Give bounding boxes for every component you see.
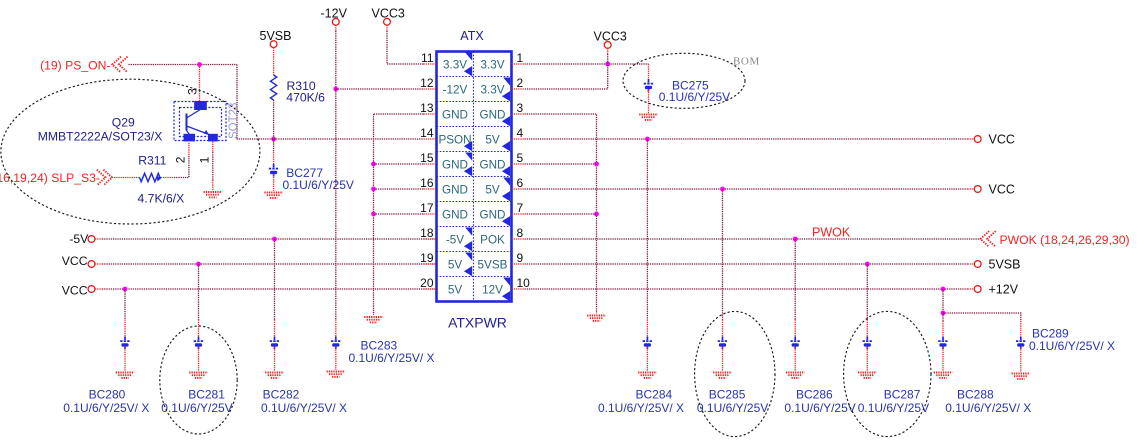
wire BC287 to ground xyxy=(866,347,868,371)
svg-text:3.3V: 3.3V xyxy=(480,83,504,96)
svg-text:1: 1 xyxy=(198,156,212,163)
pin number 15 xyxy=(420,151,434,165)
svg-text:10: 10 xyxy=(517,276,531,290)
value label BC288 xyxy=(945,401,1031,415)
pin number 17 xyxy=(420,201,434,215)
junction -12V / pin 12 xyxy=(333,87,338,92)
ground at BC284 xyxy=(638,373,657,378)
svg-text:0.1U/6/Y/25V: 0.1U/6/Y/25V xyxy=(697,401,768,415)
terminal VCC3 right xyxy=(604,42,611,49)
svg-text:19: 19 xyxy=(420,251,434,265)
svg-text:0.1U/6/Y/25V/ X: 0.1U/6/Y/25V/ X xyxy=(261,401,347,415)
terminal VCC row20 xyxy=(88,286,95,293)
svg-text:0.1U/6/Y/25V/ X: 0.1U/6/Y/25V/ X xyxy=(945,401,1031,415)
pin number 3 xyxy=(517,101,524,115)
wire pin 3 GND xyxy=(525,114,597,314)
svg-text:5VSB: 5VSB xyxy=(478,258,508,271)
ground at BC287 xyxy=(858,373,877,378)
svg-text:2: 2 xyxy=(517,76,524,90)
wire PSON to BC277 xyxy=(273,139,275,152)
svg-text:16: 16 xyxy=(420,176,434,190)
wire BC289 pin stub xyxy=(1020,321,1022,337)
pin number 1 of Q29 xyxy=(198,156,212,163)
pin label GND row 7 left xyxy=(442,208,468,221)
svg-text:1: 1 xyxy=(517,51,524,65)
connector ATXPWR body xyxy=(437,52,512,302)
pin marker R6 xyxy=(502,178,510,202)
wire -5V rail xyxy=(102,238,437,240)
ref label BC287 xyxy=(884,388,921,402)
net name PWOK on wire xyxy=(812,226,851,240)
svg-text:GND: GND xyxy=(442,108,468,121)
pin number 1 xyxy=(517,51,524,65)
pin stub left 17 xyxy=(424,213,437,215)
transistor Q29 MMBT2222A SOT23 package xyxy=(174,101,226,141)
package label SOT23 xyxy=(228,103,240,139)
wire BC282 to ground xyxy=(274,347,276,371)
net label +12V xyxy=(989,283,1019,297)
svg-text:+12V: +12V xyxy=(989,283,1019,297)
svg-text:4: 4 xyxy=(517,126,524,140)
net label 16,19,24) SLP_S3- xyxy=(0,171,100,185)
pin label 12V row 10 right xyxy=(482,283,503,296)
ground at BC286 xyxy=(786,373,805,378)
stub terminal pin 4 VCC xyxy=(968,138,975,140)
pin marker R3 xyxy=(502,116,510,126)
ground at BC283 xyxy=(327,372,346,377)
pin label -12V row 2 left xyxy=(443,83,468,96)
svg-text:VCC3: VCC3 xyxy=(594,29,627,43)
pin stub left 19 xyxy=(424,263,437,265)
svg-text:0.1U/6/Y/25V/ X: 0.1U/6/Y/25V/ X xyxy=(349,351,435,365)
svg-text:11: 11 xyxy=(421,51,434,65)
net label PWOK (18,24,26,29,30) xyxy=(1000,233,1130,247)
pin label GND row 7 right xyxy=(480,208,506,221)
pin marker R4 xyxy=(502,141,510,151)
wire Q29 collector pin 3 xyxy=(199,65,201,102)
svg-text:16,19,24) SLP_S3-: 16,19,24) SLP_S3- xyxy=(0,171,100,185)
wire pin 1 VCC3 xyxy=(525,63,649,65)
svg-text:-12V: -12V xyxy=(443,83,468,96)
pin number 10 xyxy=(517,276,531,290)
terminal 5VSB right xyxy=(974,261,981,268)
terminal VCC3 left xyxy=(384,18,391,25)
pin label 5V row 10 left xyxy=(448,283,463,296)
junction pin8 / BC286 xyxy=(793,237,798,242)
wire pin 9 5VSB xyxy=(525,263,968,265)
svg-text:20: 20 xyxy=(420,276,434,290)
svg-text:BC284: BC284 xyxy=(636,388,673,402)
junction GND left pin 15 xyxy=(371,162,376,167)
pin stub right 4 xyxy=(512,138,525,140)
pin label 3.3V row 1 right xyxy=(480,58,504,71)
ground at Q29 emitter xyxy=(204,192,223,197)
ground for pins 13 15 16 17 xyxy=(364,317,383,322)
pin stub right 7 xyxy=(512,213,525,215)
pin stub right 10 xyxy=(512,288,525,290)
stub terminal pin 6 VCC xyxy=(968,188,975,190)
net label -5V xyxy=(69,232,89,246)
svg-text:0.1U/6/Y/25V: 0.1U/6/Y/25V xyxy=(283,178,354,192)
wire BC288 to ground xyxy=(942,347,944,371)
stub terminal pin 10 +12V xyxy=(968,288,975,290)
svg-text:5V: 5V xyxy=(485,183,500,196)
capacitor BC275 xyxy=(644,79,654,92)
svg-text:5VSB: 5VSB xyxy=(989,258,1021,272)
wire +12V down to BC288 junction xyxy=(942,289,944,313)
junction GND right pin 5 xyxy=(594,162,599,167)
ground at BC282 xyxy=(265,373,284,378)
svg-text:PWOK: PWOK xyxy=(812,226,851,240)
svg-text:0.1U/6/Y/25V/ X: 0.1U/6/Y/25V/ X xyxy=(63,401,149,415)
svg-text:13: 13 xyxy=(420,101,434,115)
pin stub left 11 xyxy=(424,63,437,65)
junction -5V / BC282 xyxy=(272,237,277,242)
wire BC277 to ground xyxy=(273,175,275,191)
svg-text:GND: GND xyxy=(480,158,506,171)
svg-text:0.1U/6/Y/25V: 0.1U/6/Y/25V xyxy=(784,401,855,415)
junction PS_ON / Q29 collector xyxy=(197,62,202,67)
terminal VCC row6 xyxy=(974,186,981,193)
svg-text:0.1U/6/Y/25V/ X: 0.1U/6/Y/25V/ X xyxy=(1029,339,1115,353)
wire pin 13 GND xyxy=(374,113,424,115)
svg-text:GND: GND xyxy=(442,158,468,171)
svg-text:MMBT2222A/SOT23/X: MMBT2222A/SOT23/X xyxy=(38,129,163,143)
svg-text:ATX: ATX xyxy=(460,29,484,43)
pin marker L4 xyxy=(464,141,472,151)
svg-text:18: 18 xyxy=(420,226,434,240)
stub terminal pin 9 5VSB xyxy=(968,263,975,265)
pin label GND row 3 right xyxy=(480,108,506,121)
wire BC285 drop xyxy=(722,189,724,320)
wire R310 to PSON net xyxy=(273,100,275,139)
highlight ellipse around BC281 xyxy=(160,326,237,434)
ref label BC286 xyxy=(796,388,833,402)
pin label PSON row 4 left xyxy=(438,133,471,146)
net label VCC row6 xyxy=(989,183,1015,197)
pin marker L8 xyxy=(464,228,472,252)
pin label -5V row 8 left xyxy=(446,233,464,246)
svg-text:12: 12 xyxy=(420,76,434,90)
pin label 3.3V row 1 left xyxy=(443,58,467,71)
ref label BC275 xyxy=(672,79,709,93)
pin number 7 xyxy=(517,201,524,215)
net label 5VSB right xyxy=(989,258,1021,272)
value label 470K/6 xyxy=(286,91,325,105)
value label BC277 0.1U/6/Y/25V xyxy=(283,178,354,192)
net label (19) PS_ON- xyxy=(40,58,110,72)
value label BC275 0.1U/6/Y/25V xyxy=(659,90,730,104)
svg-text:15: 15 xyxy=(420,151,434,165)
pin marker R10 xyxy=(502,278,510,302)
svg-text:0.1U/6/Y/25V: 0.1U/6/Y/25V xyxy=(659,90,730,104)
ref label BC277 xyxy=(286,166,323,180)
svg-text:VCC: VCC xyxy=(62,284,88,298)
pin stub right 5 xyxy=(512,163,525,165)
stub VCC20 terminal xyxy=(95,288,102,290)
wire BC284 pin stub xyxy=(646,320,648,337)
ground at BC281 xyxy=(189,373,208,378)
svg-text:3.3V: 3.3V xyxy=(480,58,504,71)
capacitor BC282 xyxy=(270,337,280,350)
net label -12V xyxy=(321,7,348,21)
terminal 5VSB xyxy=(270,41,277,48)
svg-text:BC288: BC288 xyxy=(957,388,994,402)
pin stub right 8 xyxy=(512,238,525,240)
junction GND right pin 7 xyxy=(594,212,599,217)
value label BC281 xyxy=(161,401,232,415)
wire BC287 pin stub xyxy=(866,320,868,337)
capacitor BC281 xyxy=(194,337,204,350)
off-page arrow SLP_S3 xyxy=(97,170,112,186)
resistor R311 xyxy=(140,173,161,181)
svg-text:5V: 5V xyxy=(448,283,463,296)
svg-text:GND: GND xyxy=(480,108,506,121)
ground at BC289 xyxy=(1012,374,1031,379)
pin number 19 xyxy=(420,251,434,265)
wire VCC3 down xyxy=(386,31,388,64)
svg-text:(19) PS_ON-: (19) PS_ON- xyxy=(40,58,110,72)
wire BC285 pin stub xyxy=(722,320,724,337)
svg-text:6: 6 xyxy=(517,176,524,190)
pin label 5VSB row 9 right xyxy=(478,258,508,271)
svg-text:GND: GND xyxy=(442,183,468,196)
terminal +12V xyxy=(974,286,981,293)
wire BC275 to ground xyxy=(648,90,650,113)
svg-text:BC287: BC287 xyxy=(884,388,921,402)
svg-text:14: 14 xyxy=(420,126,434,140)
svg-text:3: 3 xyxy=(517,101,524,115)
net label VCC3 right xyxy=(594,29,627,43)
junction VCC19 / BC281 xyxy=(196,262,201,267)
wire pin 14 PSON xyxy=(237,138,424,140)
wire pin 15 GND xyxy=(374,163,424,165)
value label BC289 xyxy=(1029,339,1115,353)
wire -12V down to BC283 xyxy=(335,89,337,320)
wire BC289 to ground xyxy=(1020,347,1022,372)
wire BC281 pin stub xyxy=(198,320,200,337)
capacitor BC284 xyxy=(643,337,653,350)
ground at BC277 xyxy=(264,193,283,198)
pin number 2 xyxy=(517,76,524,90)
pin label GND row 5 left xyxy=(442,158,468,171)
value label BC285 xyxy=(697,401,768,415)
wire BC285 to ground xyxy=(722,347,724,371)
connector title ATX xyxy=(460,29,484,43)
pin marker L9 xyxy=(464,253,472,277)
pin label GND row 6 left xyxy=(442,183,468,196)
svg-text:-5V: -5V xyxy=(446,233,464,246)
pin marker R5 xyxy=(502,166,510,176)
svg-text:SOT23: SOT23 xyxy=(228,103,240,139)
pin label GND row 5 right xyxy=(480,158,506,171)
wire pin 17 GND xyxy=(374,213,424,215)
value label BC284 xyxy=(598,401,684,415)
svg-text:PWOK (18,24,26,29,30): PWOK (18,24,26,29,30) xyxy=(1000,233,1130,247)
resistor R310 xyxy=(271,75,277,100)
wire BC282 drop xyxy=(274,239,276,320)
pin stub left 14 xyxy=(424,138,437,140)
svg-text:GND: GND xyxy=(480,208,506,221)
pin stub right 1 xyxy=(512,63,525,65)
wire BC283 to ground xyxy=(335,347,337,370)
wire BC288 pin stub xyxy=(942,321,944,337)
ref label BC280 xyxy=(89,388,126,402)
highlight ellipse around Q29 and R311 xyxy=(1,79,260,224)
ground for pins 3 5 7 xyxy=(587,316,606,321)
wire to BC289 xyxy=(943,313,1021,321)
svg-text:17: 17 xyxy=(420,201,434,215)
wire emitter mid xyxy=(212,152,214,180)
pin number 14 xyxy=(420,126,434,140)
svg-text:-5V: -5V xyxy=(69,232,89,246)
svg-text:7: 7 xyxy=(517,201,524,215)
svg-text:POK: POK xyxy=(480,233,505,246)
value label MMBT2222A/SOT23/X xyxy=(38,129,163,143)
wire VCC3 right terminal down xyxy=(525,54,608,89)
pin stub right 9 xyxy=(512,263,525,265)
wire pin 5 GND xyxy=(525,163,597,165)
svg-text:BOM: BOM xyxy=(733,56,760,68)
pin stub right 6 xyxy=(512,188,525,190)
stub VCC3 right terminal xyxy=(607,48,609,54)
wire emitter ground stub xyxy=(212,180,214,191)
pin stub left 16 xyxy=(424,188,437,190)
pin number 8 xyxy=(517,226,524,240)
value label BC280 xyxy=(63,401,149,415)
wire pin 11 to VCC3 xyxy=(387,63,424,65)
BOM note xyxy=(733,56,760,68)
pin number 18 xyxy=(420,226,434,240)
wire pin 6 VCC xyxy=(525,188,968,190)
net label VCC3 xyxy=(372,7,405,21)
pin number 20 xyxy=(420,276,434,290)
ground at BC288 xyxy=(934,373,953,378)
wire pin 8 PWOK xyxy=(525,238,981,240)
highlight ellipse around BC275 xyxy=(623,53,745,108)
terminal -12V xyxy=(332,18,339,25)
junction pin4 / BC284 xyxy=(645,137,650,142)
ref label R310 xyxy=(287,79,316,93)
wire BC280 pin stub xyxy=(124,320,126,337)
wire Q29 emitter pin 1 xyxy=(212,142,214,153)
svg-text:5V: 5V xyxy=(485,133,500,146)
pin number 4 xyxy=(517,126,524,140)
svg-text:BC285: BC285 xyxy=(709,388,746,402)
svg-text:470K/6: 470K/6 xyxy=(286,91,325,105)
svg-text:2: 2 xyxy=(174,156,188,163)
wire base pin stub xyxy=(188,142,190,155)
ref label BC282 xyxy=(263,388,300,402)
wire pin 16 GND xyxy=(374,188,424,190)
pin number 3 of Q29 xyxy=(186,88,200,95)
ground at BC275 xyxy=(639,115,658,120)
connector name ATXPWR xyxy=(448,315,507,331)
svg-text:GND: GND xyxy=(442,208,468,221)
capacitor BC285 xyxy=(718,337,728,350)
svg-text:0.1U/6/Y/25V/ X: 0.1U/6/Y/25V/ X xyxy=(598,401,684,415)
svg-text:8: 8 xyxy=(517,226,524,240)
stub -5V terminal xyxy=(95,238,102,240)
junction GND left pin 17 xyxy=(371,212,376,217)
stub VCC3 terminal xyxy=(386,25,388,31)
stub -12V terminal xyxy=(335,25,337,31)
capacitor BC277 xyxy=(269,164,279,177)
capacitor BC283 xyxy=(331,337,341,350)
capacitor BC286 xyxy=(790,337,800,350)
svg-text:0.1U/6/Y/25V: 0.1U/6/Y/25V xyxy=(161,401,232,415)
pin label 5V row 9 left xyxy=(448,258,463,271)
pin label 5V row 4 right xyxy=(485,133,500,146)
ref label BC284 xyxy=(636,388,673,402)
junction pin6 / BC285 xyxy=(720,187,725,192)
highlight ellipse around BC285 xyxy=(695,311,775,436)
pin stub left 18 xyxy=(424,238,437,240)
terminal VCC row4 xyxy=(974,136,981,143)
wire BC286 drop xyxy=(794,239,796,320)
wire BC283 pin stub xyxy=(335,320,337,337)
net label VCC row4 xyxy=(989,133,1015,147)
pin marker L5 xyxy=(464,153,472,177)
svg-text:Q29: Q29 xyxy=(112,116,135,130)
wire BC280 to ground xyxy=(124,347,126,371)
pin marker R7 xyxy=(502,216,510,226)
wire SLP_S3 to R311 xyxy=(114,177,140,179)
terminal -5V xyxy=(88,236,95,243)
wire BC275 drop xyxy=(648,64,650,79)
wire VCC rail row19 xyxy=(102,263,437,265)
pin number 2 of Q29 xyxy=(174,156,188,163)
wire pin 10 +12V xyxy=(525,288,968,290)
value label BC287 xyxy=(858,401,929,415)
svg-text:4.7K/6/X: 4.7K/6/X xyxy=(138,192,185,206)
pin label 3.3V row 2 right xyxy=(480,83,504,96)
pin stub left 13 xyxy=(424,113,437,115)
wire pin 4 VCC xyxy=(525,138,968,140)
ref label BC285 xyxy=(709,388,746,402)
svg-text:3: 3 xyxy=(186,88,200,95)
pin label GND row 3 left xyxy=(442,108,468,121)
ref label BC289 xyxy=(1032,327,1069,341)
junction pin9 / BC287 xyxy=(865,262,870,267)
wire BC287 drop xyxy=(866,264,868,320)
wire BC288 drop xyxy=(942,313,944,321)
wire PS_ON down to PSON row xyxy=(236,65,238,140)
ref label BC281 xyxy=(188,388,225,402)
svg-text:R311: R311 xyxy=(138,153,166,167)
svg-text:ATXPWR: ATXPWR xyxy=(448,315,507,331)
capacitor BC288 xyxy=(938,337,948,350)
capacitor BC280 xyxy=(120,337,130,350)
svg-text:5V: 5V xyxy=(448,258,463,271)
ref label BC288 xyxy=(957,388,994,402)
svg-text:3.3V: 3.3V xyxy=(443,58,467,71)
pin number 11 xyxy=(421,51,434,65)
ref label R311 xyxy=(138,153,166,167)
value label BC282 xyxy=(261,401,347,415)
wire R311 to Q29 base xyxy=(163,177,174,179)
wire BC277 pin stub xyxy=(273,152,275,164)
pin number 16 xyxy=(420,176,434,190)
wire 5VSB to R310 xyxy=(273,48,275,76)
pin label POK row 8 right xyxy=(480,233,505,246)
stub VCC19 terminal xyxy=(95,263,102,265)
wire BC286 to ground xyxy=(794,347,796,371)
junction R310 / PSON / BC277 xyxy=(271,137,276,142)
pin stub right 3 xyxy=(512,113,525,115)
svg-text:VCC: VCC xyxy=(62,254,88,268)
off-page arrow PS_ON xyxy=(112,57,127,73)
